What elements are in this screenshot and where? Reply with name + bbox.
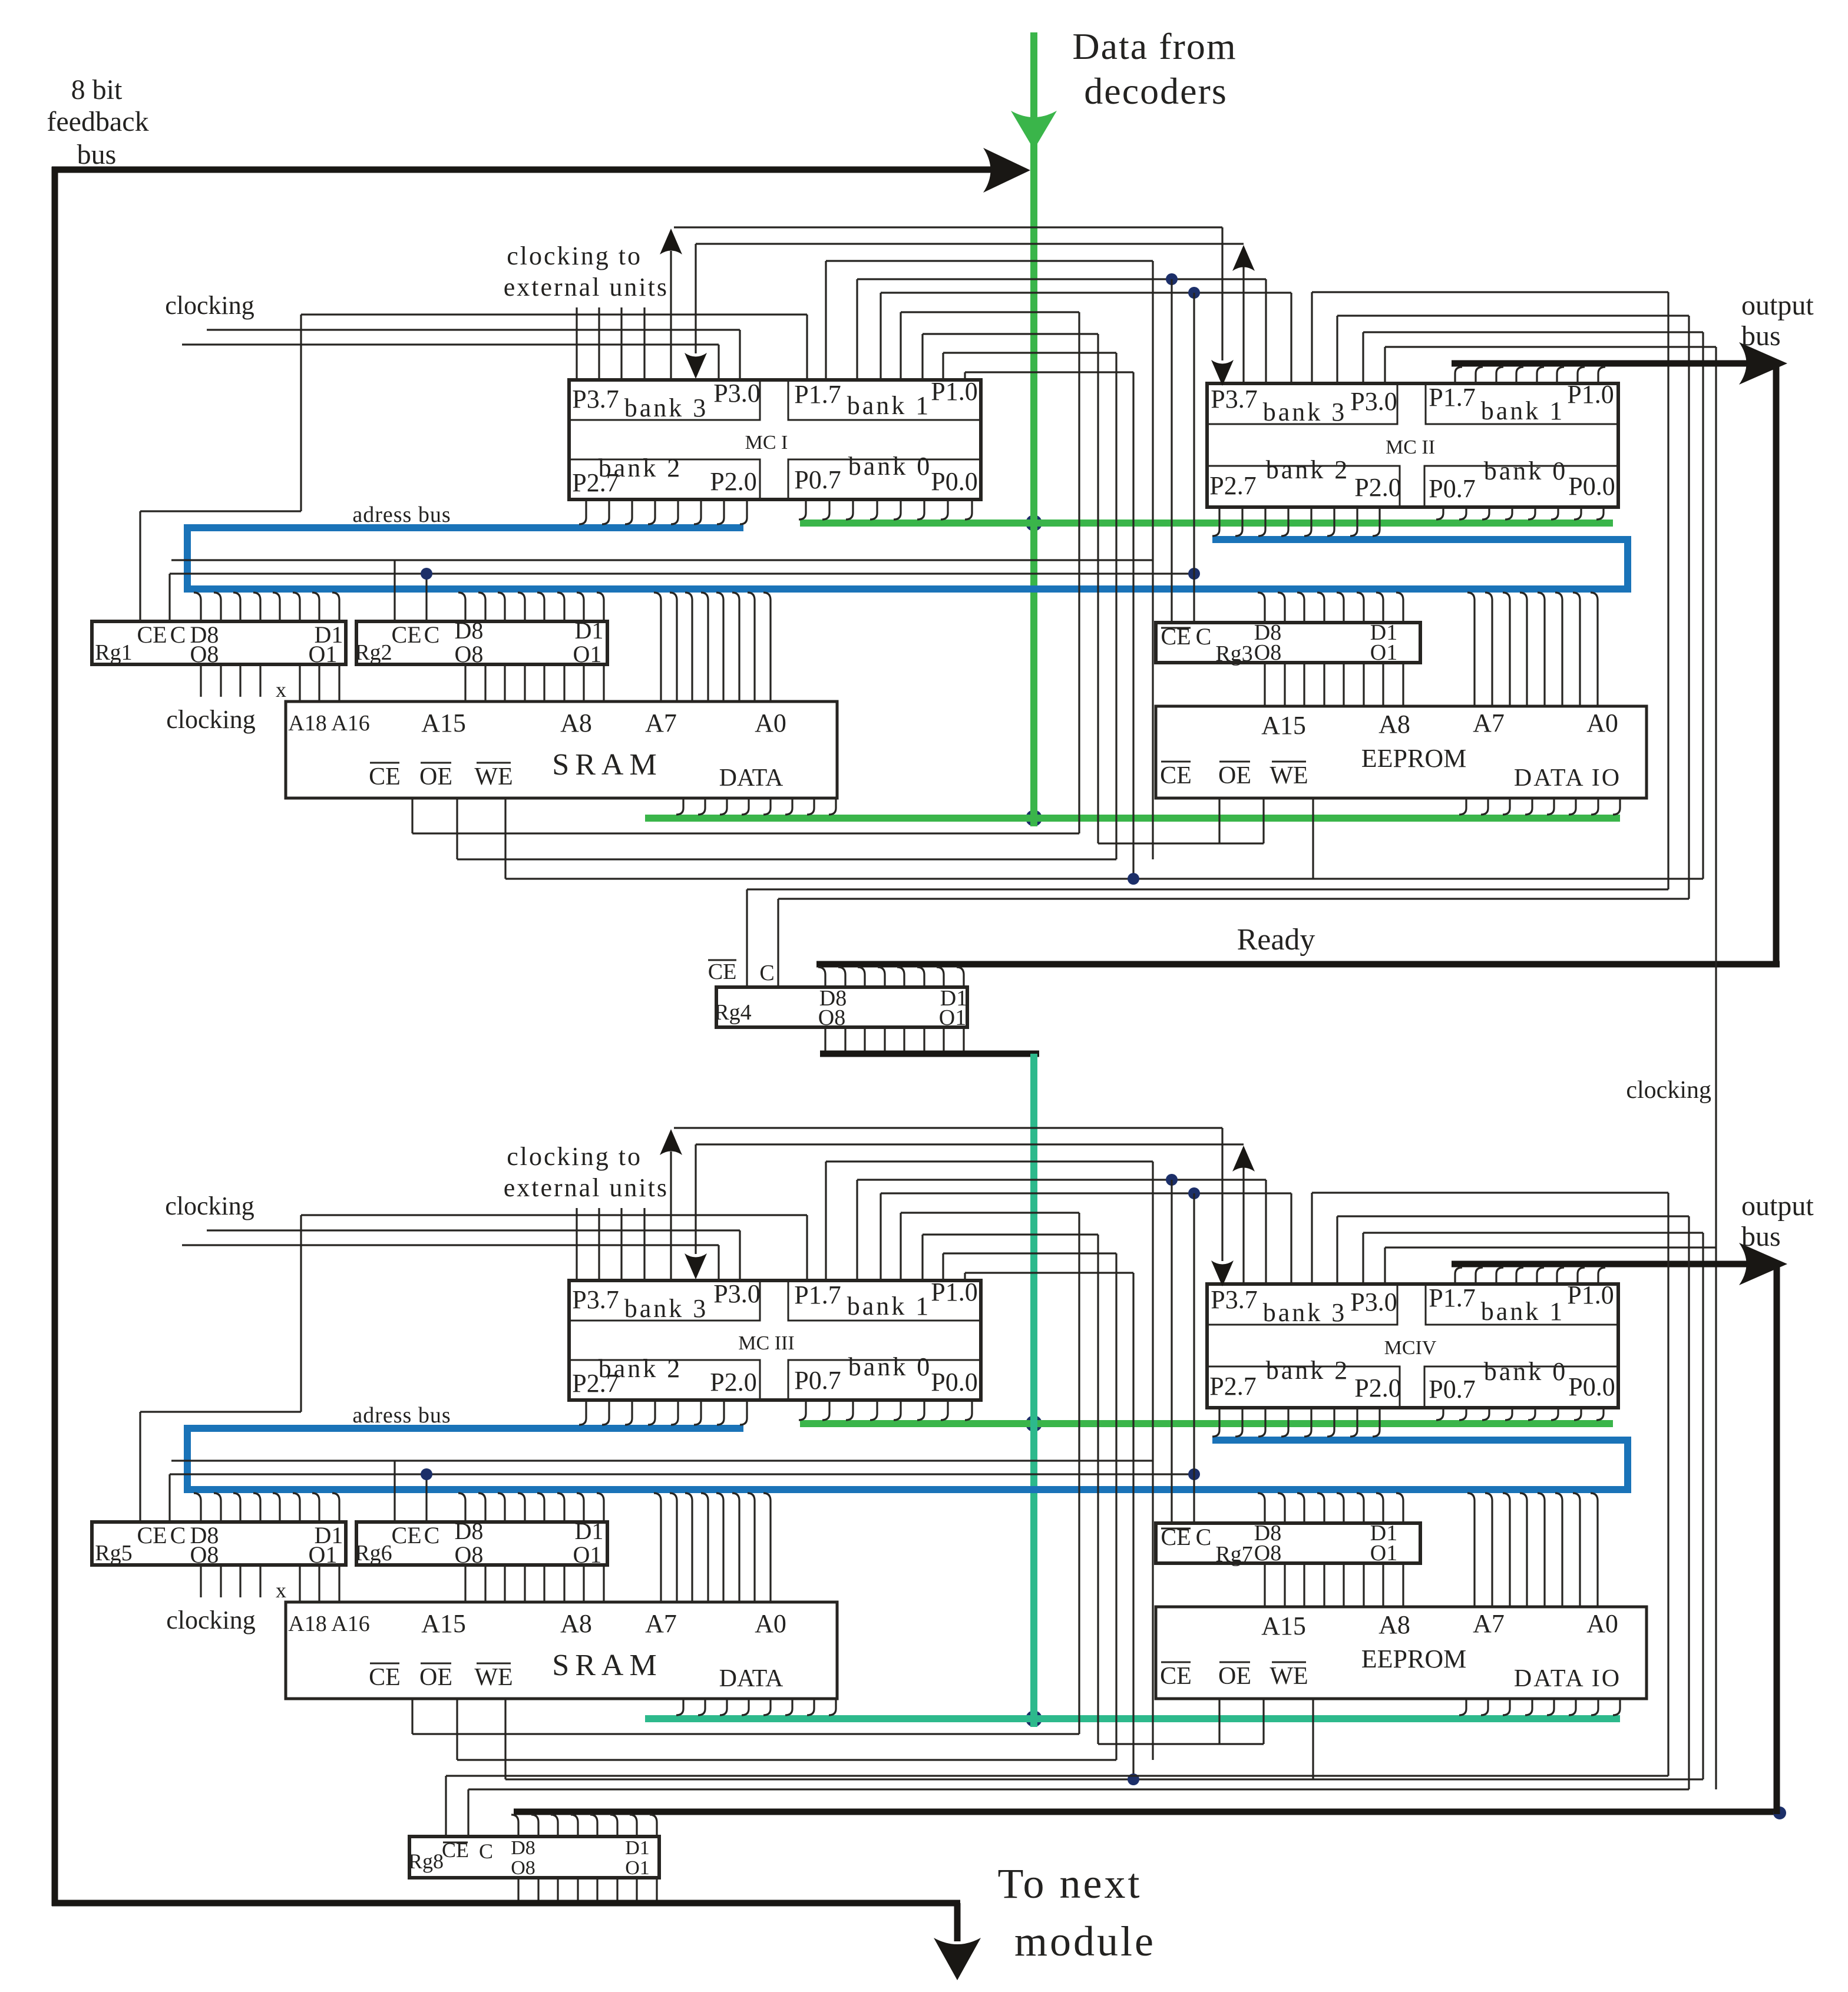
MC III bank 2 box <box>569 1360 760 1400</box>
svg-text:D8: D8 <box>511 1837 535 1859</box>
svg-text:output: output <box>1741 290 1814 321</box>
svg-text:EEPROM: EEPROM <box>1361 744 1466 773</box>
svg-text:P0.7: P0.7 <box>794 1366 841 1395</box>
wire: Rg8 D8 input hook <box>511 1815 518 1837</box>
svg-text:O8: O8 <box>818 1005 845 1030</box>
wire: Rg5 D8 hook <box>194 1493 201 1522</box>
bus: to next module stem <box>954 1903 961 1941</box>
svg-text:A15: A15 <box>1261 1612 1306 1640</box>
svg-text:A8: A8 <box>1378 710 1410 739</box>
wire: clocking jog horizontal <box>140 1411 301 1412</box>
svg-text:O8: O8 <box>1254 640 1281 665</box>
wire: Rg1 D5 hook <box>253 593 260 621</box>
MCIV bank 2 box <box>1207 1366 1400 1408</box>
microcontroller MC II <box>1207 383 1618 507</box>
svg-text:P2.0: P2.0 <box>1354 1374 1401 1402</box>
wire: Rg8 D6 input hook <box>551 1815 558 1837</box>
wire: MC III P1.7 pin <box>806 1215 808 1280</box>
wire: MC III bank3 clock pin <box>598 1208 600 1280</box>
wire: MC II P0.2 hook to data bus <box>1551 507 1558 519</box>
wire: Rg6 D3 hook <box>557 1493 564 1522</box>
wire: Rg7 O2 to EEPROM <box>1382 1563 1384 1607</box>
svg-text:Rg8: Rg8 <box>408 1849 444 1873</box>
wire: MC II P1.0 hook to output bus <box>1598 367 1605 383</box>
svg-text:Rg7: Rg7 <box>1215 1542 1252 1567</box>
svg-text:MC I: MC I <box>745 432 788 454</box>
wire: Rg4 D6 input hook <box>858 967 865 987</box>
wire: MC I P0.4 hook to data bus <box>870 499 877 519</box>
bus: address bus upper left segment (top half) <box>187 524 743 531</box>
wire: Rg8 D5 input hook <box>571 1815 578 1837</box>
svg-text:OE: OE <box>419 763 452 790</box>
wire: clocking left vertical <box>300 315 302 511</box>
wire: EEPROM DATA IO pin 7 <box>1591 1699 1598 1715</box>
wire: SRAM A4 pin <box>701 1493 708 1602</box>
wire: Rg8 O6 output pin <box>557 1878 558 1903</box>
wire: Rg8 O8 output pin <box>517 1878 519 1903</box>
wire: Rg1 C input <box>168 574 170 621</box>
wire: Rg3 O5 to EEPROM <box>1323 663 1325 706</box>
svg-text:O1: O1 <box>309 641 338 667</box>
MC III bank 0 box <box>788 1360 981 1400</box>
wire: Rg4 O1 output pin <box>963 1027 964 1054</box>
svg-text:O8: O8 <box>455 1541 484 1568</box>
wire: Rg6 D2 hook <box>577 1493 584 1522</box>
wire: MC II P1.4 hook to output bus <box>1516 367 1523 383</box>
wire: Rg1 D3 hook <box>293 593 300 621</box>
wire: EEPROM DATA IO pin 4 <box>1525 798 1532 815</box>
wire: EEPROM DATA IO pin 2 <box>1481 798 1488 815</box>
wire: H3 long drop <box>1152 1162 1153 1760</box>
wire: clocking rail to registers <box>170 1473 1194 1475</box>
wire: H1 MC III to MCIV P3.7 <box>674 1127 1222 1129</box>
wire: Rg1 output to SRAM <box>318 664 320 701</box>
wire: MC III bank3 clock pin <box>643 1208 645 1280</box>
junction: clocking at Rg6 C <box>421 1468 432 1480</box>
wire: EEPROM A6 pin <box>1485 593 1492 706</box>
wire: Rg3 O3 to EEPROM <box>1363 663 1364 706</box>
wire: MCIV P2.4 hook to address bus <box>1281 1408 1288 1437</box>
svg-text:O1: O1 <box>573 641 602 667</box>
wire: Rg8 O2 output pin <box>636 1878 637 1903</box>
bus: output bus (top half) <box>1452 360 1773 367</box>
wire: Rg4 C line <box>778 898 1689 899</box>
svg-text:C: C <box>170 1522 186 1548</box>
wire: MC I P2.1 hook to address bus <box>717 499 724 524</box>
wire: Rg8 C line <box>468 1788 1689 1790</box>
wire: H4 drop into MCIV <box>1265 1180 1267 1284</box>
svg-text:P0.7: P0.7 <box>794 465 841 494</box>
wire: MCIV P1.1 hook to output bus <box>1578 1268 1585 1284</box>
wire: Rg6 O3 to SRAM <box>563 1565 565 1602</box>
wire: MC III bank3 clock pin <box>620 1208 622 1280</box>
wire: SRAM A1 pin <box>748 593 755 701</box>
svg-text:CE: CE <box>391 621 421 648</box>
wire: EEPROM DATA IO pin 6 <box>1569 1699 1576 1715</box>
svg-text:A7: A7 <box>645 709 677 737</box>
wire: MC III P2.4 hook to address bus <box>648 1400 655 1425</box>
wire: H4 drop into MC II <box>1265 279 1267 383</box>
svg-text:clocking: clocking <box>166 705 256 734</box>
svg-text:bank 0: bank 0 <box>1484 456 1568 485</box>
arrow: from MCIV P3.1 (up) <box>1232 1146 1255 1172</box>
bus: Rg8 input bus <box>514 1809 1780 1815</box>
wire: Rg4 O7 output pin <box>844 1027 846 1054</box>
wire: Rg7 D2 hook <box>1376 1493 1383 1523</box>
svg-text:D8: D8 <box>455 617 484 644</box>
svg-text:A0: A0 <box>755 1609 786 1638</box>
wire: MC II P1.1 hook to output bus <box>1578 367 1585 383</box>
junction: WE net tap <box>1128 873 1139 885</box>
wire: MC III P2.6 hook to address bus <box>602 1400 609 1425</box>
wire: SRAM DATA pin 4 <box>742 798 749 815</box>
svg-text:To next: To next <box>998 1860 1142 1907</box>
wire: MCIV P2.2 hook to address bus <box>1327 1408 1334 1437</box>
wire: Rg1 O7 stub <box>220 664 222 697</box>
wire: MC I P2.6 hook to address bus <box>602 499 609 524</box>
wire: H5 line <box>881 292 1291 293</box>
wire: MC II P2.3 hook to address bus <box>1304 507 1311 536</box>
wire: MC II P2.4 hook to address bus <box>1281 507 1288 536</box>
svg-text:bank 1: bank 1 <box>847 391 931 420</box>
wire: EEPROM A4 pin <box>1520 1493 1527 1607</box>
wire: SRAM OE net <box>457 858 1116 860</box>
register Rg2 <box>356 621 607 664</box>
wire: H6 line to SRAM CE <box>901 1212 1079 1213</box>
svg-text:P1.0: P1.0 <box>931 377 977 406</box>
svg-text:P3.7: P3.7 <box>572 385 619 413</box>
wire: EEPROM A0 pin <box>1591 593 1598 706</box>
wire: EEPROM DATA IO pin 8 <box>1613 798 1620 815</box>
MC II bank 2 box <box>1207 466 1400 507</box>
svg-text:adress bus: adress bus <box>352 502 451 527</box>
wire: clocking drop 2 to MC I bank3 <box>718 345 719 380</box>
memory SRAM (bottom half) <box>286 1602 837 1699</box>
svg-text:P3.0: P3.0 <box>713 1279 760 1308</box>
wire: Rg3 D7 hook <box>1278 593 1285 623</box>
svg-text:P2.0: P2.0 <box>1354 473 1401 502</box>
svg-text:bank 2: bank 2 <box>1266 455 1350 484</box>
wire: MC III P0.2 hook to data bus <box>917 1400 924 1420</box>
wire: data line through memory node (bottom half) <box>1030 1710 1037 1727</box>
wire: Rg8 D2 input hook <box>630 1815 637 1837</box>
wire: MC III P2.0 hook to address bus <box>740 1400 747 1425</box>
svg-text:P2.0: P2.0 <box>710 467 756 496</box>
svg-text:MCIV: MCIV <box>1384 1337 1437 1359</box>
wire: MCIV P0.7 hook to data bus <box>1436 1408 1443 1420</box>
wire: Rg7 O4 to EEPROM <box>1343 1563 1344 1607</box>
wire: EEPROM A2 pin <box>1555 1493 1562 1607</box>
wire: Rg3 O1 to EEPROM <box>1402 663 1404 706</box>
wire: H9 line to WE net <box>965 371 1133 373</box>
svg-text:OE: OE <box>1218 762 1251 789</box>
wire: SRAM A0 pin <box>763 1493 771 1602</box>
wire: MCIV P0.3 hook to data bus <box>1528 1408 1535 1420</box>
wire: Rg2 D3 hook <box>557 593 564 621</box>
wire: EEPROM A4 pin <box>1520 593 1527 706</box>
svg-text:DATA: DATA <box>719 765 784 792</box>
wire: Rg1 D6 hook <box>233 593 240 621</box>
wire: Rg3 D3 hook <box>1357 593 1364 623</box>
svg-text:A7: A7 <box>1473 1609 1505 1638</box>
svg-text:CE: CE <box>137 1522 167 1548</box>
wire: Rg6 O6 to SRAM <box>504 1565 505 1602</box>
junction: WE net tap <box>1128 1773 1139 1785</box>
svg-text:P0.0: P0.0 <box>1568 1372 1615 1401</box>
wire: Rg7 D5 hook <box>1317 1493 1324 1523</box>
wire: EEPROM DATA IO pin 3 <box>1503 1699 1510 1715</box>
wire: SRAM DATA pin 6 <box>785 798 792 815</box>
wire: MC III P2.2 hook to address bus <box>694 1400 701 1425</box>
wire: MCIV P2.3 hook to address bus <box>1304 1408 1311 1437</box>
register Rg6 <box>356 1522 607 1565</box>
wire: Rg2 D6 hook <box>498 593 505 621</box>
wire: Rg6 D5 hook <box>518 1493 525 1522</box>
wire: MCIV P1.0 hook to output bus <box>1598 1268 1605 1284</box>
wire: Rg3 D8 hook <box>1258 593 1265 623</box>
svg-text:bus: bus <box>1741 320 1781 352</box>
wire: Rg6 O5 to SRAM <box>524 1565 525 1602</box>
wire: clocking line 3 <box>182 1244 719 1246</box>
arrow: into MC I P3.0 (down) <box>685 353 707 379</box>
wire: Rg7 D8 hook <box>1258 1493 1265 1523</box>
wire: Rg4 O3 output pin <box>923 1027 925 1054</box>
wire: MCIV P0.0 hook to data bus <box>1596 1408 1604 1420</box>
wire: Rg3 D6 hook <box>1297 593 1304 623</box>
wire: data bus to lower module (teal vertical) <box>1030 1054 1037 1719</box>
wire: Rg4 O5 output pin <box>884 1027 885 1054</box>
svg-text:O8: O8 <box>1254 1541 1281 1566</box>
svg-text:OE: OE <box>1218 1663 1251 1690</box>
wire: Rg3 D5 hook <box>1317 593 1324 623</box>
svg-text:P3.7: P3.7 <box>572 1285 619 1314</box>
wire: clocking line 1 <box>301 1214 807 1216</box>
wire: H3 long drop <box>1152 261 1153 859</box>
wire: Rg3 D2 hook <box>1376 593 1383 623</box>
wire: Rg6 O1 to SRAM <box>603 1565 604 1602</box>
wire: Rg5 D4 hook <box>273 1493 280 1522</box>
wire: Rg6 D6 hook <box>498 1493 505 1522</box>
wire: MC III P0.3 hook to data bus <box>894 1400 901 1420</box>
wire: MC III P2.3 hook to address bus <box>671 1400 678 1425</box>
wire: MC II P3.6 out <box>1363 331 1703 333</box>
MC II bank 0 box <box>1424 466 1618 507</box>
svg-text:A15: A15 <box>421 1609 466 1638</box>
svg-text:A18: A18 <box>288 711 326 736</box>
wire: SRAM DATA pin 2 <box>698 798 705 815</box>
wire: MC I clocking-out vertical <box>670 251 672 380</box>
wire: H7 line to EEPROM CE/OE <box>923 1233 1098 1235</box>
svg-text:bank 3: bank 3 <box>624 1294 709 1323</box>
wire: Rg8 O3 output pin <box>616 1878 618 1903</box>
svg-text:MC II: MC II <box>1386 436 1435 458</box>
wire: Rg7 D7 hook <box>1278 1493 1285 1523</box>
wire: EEPROM DATA IO pin 1 <box>1459 798 1466 815</box>
microcontroller MC III <box>569 1280 981 1400</box>
svg-text:P3.7: P3.7 <box>1211 385 1257 413</box>
wire: MC III P0.1 hook to data bus <box>941 1400 948 1420</box>
wire: MC III P0.7 hook to data bus <box>799 1400 806 1420</box>
svg-text:WE: WE <box>474 1664 513 1691</box>
wire: Rg7 O8 to EEPROM <box>1264 1563 1265 1607</box>
svg-text:C: C <box>759 961 774 985</box>
wire: H5 line <box>881 1192 1291 1194</box>
svg-text:bank 0: bank 0 <box>848 452 933 481</box>
svg-text:P0.0: P0.0 <box>931 467 977 496</box>
wire: MC II P0.0 hook to data bus <box>1596 507 1604 519</box>
wire: EEPROM A2 pin <box>1555 593 1562 706</box>
junction: data bus node at memories (bottom half) <box>1026 1710 1042 1727</box>
wire: EEPROM A3 pin <box>1538 593 1545 706</box>
wire: Rg2 O1 to SRAM <box>603 664 604 701</box>
MC I bank 2 box <box>569 459 760 499</box>
svg-text:CE: CE <box>137 621 167 648</box>
wire: Rg3 O6 to EEPROM <box>1303 663 1305 706</box>
wire: Rg4 O6 output pin <box>864 1027 865 1054</box>
arrow: clocking to external units (up) <box>660 1129 682 1155</box>
bus: address bus upper right segment (bottom half) <box>1212 1437 1631 1444</box>
wire: Rg4 D4 input hook <box>897 967 904 987</box>
wire: Rg5 output to SRAM <box>338 1565 340 1602</box>
wire: EEPROM A1 pin <box>1573 593 1580 706</box>
wire: H2 drop at MC III <box>695 1144 696 1254</box>
bus: address bus right vertical (top half) <box>1624 536 1631 593</box>
wire: clocking line 3 <box>182 343 719 345</box>
wire: EEPROM A6 pin <box>1485 1493 1492 1607</box>
wire: Rg7 O6 to EEPROM <box>1303 1563 1305 1607</box>
wire: MCIV P0.2 hook to data bus <box>1551 1408 1558 1420</box>
wire: Rg3 D4 hook <box>1337 593 1344 623</box>
wire: Rg8 D3 input hook <box>610 1815 617 1837</box>
svg-text:A8: A8 <box>560 709 592 737</box>
svg-text:D1: D1 <box>625 1837 650 1859</box>
bus: 8 bit feedback bus left vertical <box>52 167 58 1906</box>
svg-text:P2.7: P2.7 <box>572 468 619 497</box>
wire: MC I bank3 clock pin <box>598 307 600 380</box>
wire: Rg1 output to SRAM <box>299 664 300 701</box>
wire: Rg4 D2 input hook <box>937 967 944 987</box>
wire: MC II P0.1 hook to data bus <box>1574 507 1581 519</box>
wire: MCIV P3.7b out <box>1385 1246 1716 1248</box>
wire: EEPROM DATA IO pin 5 <box>1547 798 1554 815</box>
wire: Rg1 O8 stub <box>200 664 201 697</box>
wire: MC II P0.3 hook to data bus <box>1528 507 1535 519</box>
wire: MCIV P0.5 hook to data bus <box>1482 1408 1489 1420</box>
arrow: output bus (right) <box>1739 342 1787 385</box>
wire: MCIV P3.4 out <box>1312 1192 1668 1193</box>
MC I bank 1 box <box>788 380 981 420</box>
arrow: into MC III P3.0 (down) <box>685 1253 707 1279</box>
wire: MCIV P1.7 hook to output bus <box>1455 1268 1462 1284</box>
wire: EEPROM A5 pin <box>1503 593 1510 706</box>
wire: SRAM DATA pin 7 <box>807 1699 814 1715</box>
svg-text:Rg2: Rg2 <box>355 640 392 665</box>
wire: SRAM DATA pin 3 <box>720 1699 727 1715</box>
wire: data line through bank0 node (bottom half) <box>1030 1415 1037 1432</box>
wire: H2 MC II to MC I P3.0 <box>696 243 1244 244</box>
svg-text:bank 1: bank 1 <box>1481 396 1565 425</box>
bus: output bus right vertical (MC II to Ready) <box>1773 362 1780 967</box>
wire: SRAM A7 pin <box>654 1493 661 1602</box>
svg-text:A15: A15 <box>421 709 466 737</box>
wire: Rg5 output to SRAM <box>299 1565 300 1602</box>
wire: Rg3 O8 to EEPROM <box>1264 663 1265 706</box>
wire: WE net <box>505 878 1703 879</box>
svg-text:A7: A7 <box>1473 709 1505 737</box>
arrow: output bus (right) <box>1739 1243 1787 1285</box>
wire: SRAM DATA pin 2 <box>698 1699 705 1715</box>
wire: MC II P3.1 up arrow vertical <box>1242 266 1244 383</box>
wire: H4 line <box>857 1179 1266 1180</box>
wire: MC III clocking-out vertical <box>670 1151 672 1280</box>
svg-text:P3.0: P3.0 <box>1350 1288 1397 1316</box>
wire: SRAM A5 pin <box>685 593 692 701</box>
arrow: into MCIV P3.7 (down) <box>1211 1260 1234 1286</box>
svg-text:external units: external units <box>504 1173 669 1202</box>
svg-text:D1: D1 <box>575 1518 604 1544</box>
svg-text:P1.7: P1.7 <box>1429 1283 1475 1312</box>
wire: MC II P2.1 hook to address bus <box>1350 507 1357 536</box>
bus: data bus under bank 0 (bottom half) <box>800 1420 1613 1427</box>
wire: MC II P1.6 hook to output bus <box>1476 367 1483 383</box>
svg-text:P0.0: P0.0 <box>1568 472 1615 501</box>
wire: Rg2 O6 to SRAM <box>504 664 505 701</box>
wire: H9 line to WE net <box>965 1272 1133 1273</box>
MC III bank 1 box <box>788 1280 981 1321</box>
wire: MCIV P0.1 hook to data bus <box>1574 1408 1581 1420</box>
wire: EEPROM A1 pin <box>1573 1493 1580 1607</box>
wire: clocking rail right side <box>1715 347 1717 1789</box>
wire: clocking line 2 <box>207 329 740 330</box>
wire: EEPROM CE/OE net <box>1098 1743 1264 1745</box>
svg-text:A8: A8 <box>560 1609 592 1638</box>
svg-text:adress bus: adress bus <box>352 1403 451 1428</box>
wire: EEPROM A5 pin <box>1503 1493 1510 1607</box>
wire: SRAM CE net <box>412 832 1079 834</box>
svg-text:P1.7: P1.7 <box>794 380 841 409</box>
wire: Rg3 C drop <box>1193 293 1195 623</box>
bus: address bus upper left segment (bottom half) <box>187 1425 743 1432</box>
svg-text:x: x <box>276 678 286 701</box>
memory SRAM (top half) <box>286 701 837 798</box>
wire: MCIV P1.6 hook to output bus <box>1476 1268 1483 1284</box>
wire: clocking line 2 <box>207 1229 740 1231</box>
svg-text:O1: O1 <box>1370 1541 1397 1566</box>
wire: Rg5 D5 hook <box>253 1493 260 1522</box>
junction: clocking at Rg3 C drop <box>1188 568 1200 580</box>
bus: output bus (bottom half) <box>1452 1261 1773 1268</box>
MC III bank 3 box <box>569 1280 760 1321</box>
svg-text:decoders: decoders <box>1084 70 1227 112</box>
svg-text:clocking to: clocking to <box>507 1142 642 1171</box>
wire: SRAM A5 pin <box>685 1493 692 1602</box>
wire: MC III P0.5 hook to data bus <box>846 1400 853 1420</box>
wire: clocking drop 2 to MC III bank3 <box>718 1245 719 1280</box>
wire: H7 line to EEPROM CE/OE <box>923 333 1098 335</box>
svg-text:clocking: clocking <box>165 1192 254 1220</box>
wire: Rg4 CE line <box>747 888 1668 890</box>
junction: H5 tap for Rg3 C <box>1188 287 1200 299</box>
svg-text:clocking to: clocking to <box>507 241 642 270</box>
wire: SRAM DATA pin 1 <box>676 798 683 815</box>
junction: Rg8 bus / output bus corner <box>1773 1806 1786 1819</box>
svg-text:DATA IO: DATA IO <box>1514 1665 1621 1692</box>
wire: Rg8 D4 input hook <box>590 1815 597 1837</box>
junction: H5 tap for Rg7 C <box>1188 1187 1200 1199</box>
arrow: clocking to external units (up) <box>660 229 682 254</box>
wire: MC I P0.1 hook to data bus <box>941 499 948 519</box>
wire: Rg2 D4 hook <box>537 593 544 621</box>
